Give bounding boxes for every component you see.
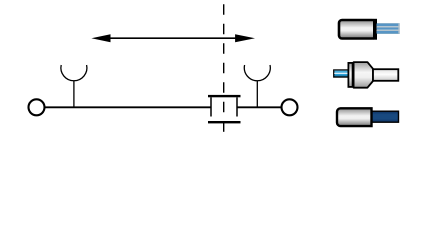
icon 1: stranded inner cable (3 strands) [377,23,400,33]
node: right arrowhead [235,34,255,42]
support: right cable stop (cup + stem) [244,65,270,107]
icon 2: cone body [354,62,373,88]
support: left cable stop (cup + stem) [61,65,87,107]
node: right end nipple (circle) [282,99,298,115]
node: left end nipple (circle) [29,99,45,115]
adjuster: left vertical [210,97,212,116]
icon 3: navy end block [372,111,399,122]
icon 2: collar [348,63,352,87]
icon 2: inner cable stub [334,70,349,77]
icon 2: rod [373,69,398,81]
adjuster: right vertical [236,97,238,116]
wire: dashed center line [223,4,225,132]
adjuster: bottom bar [208,121,241,123]
wire: main cable left segment [45,106,212,108]
wire: double-headed arrow shaft [109,37,236,39]
wire: main cable right segment [237,106,282,108]
icon 3: cylinder [337,108,372,126]
node: left arrowhead [91,34,110,42]
icon 1: outer housing (cable sheath) [339,19,377,40]
adjuster: top bar [208,95,241,97]
